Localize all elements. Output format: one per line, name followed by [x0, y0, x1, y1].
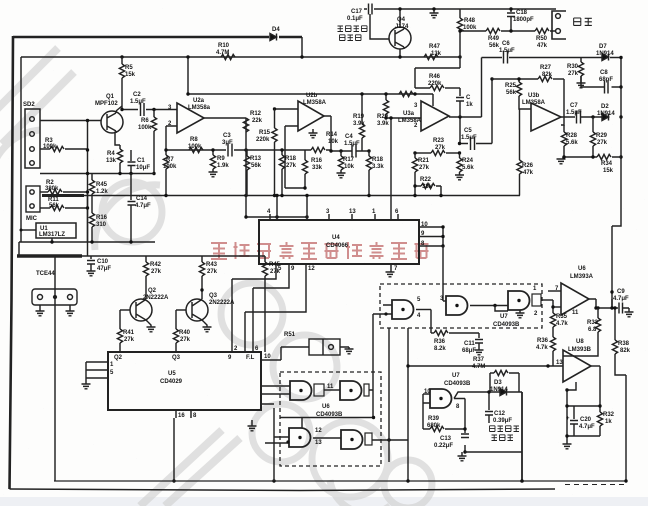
resistor R18a 27k [281, 150, 283, 155]
wire U6-C inputs [265, 408, 289, 443]
wire x522 down [521, 392, 523, 481]
svg-text:CD4093B: CD4093B [444, 381, 471, 387]
junction dots y173 [86, 172, 133, 175]
junction dot U6-C in [286, 440, 289, 443]
svg-text:13k: 13k [106, 158, 117, 164]
svg-text:R20: R20 [377, 114, 389, 120]
svg-text:100k: 100k [463, 25, 477, 31]
svg-text:C5: C5 [464, 128, 472, 134]
resistor R38 [614, 308, 616, 340]
wire top rail y37 [13, 36, 302, 38]
U4 ground pin [390, 264, 392, 272]
svg-text:47μF: 47μF [97, 266, 111, 272]
svg-text:F.L: F.L [246, 355, 255, 361]
svg-text:27k: 27k [286, 163, 297, 169]
svg-text:R42: R42 [150, 262, 162, 268]
wire R27 down to U3b [561, 79, 564, 125]
wire x55 long [54, 256, 56, 481]
resistor R45b 1.2k [91, 174, 93, 181]
IC U5 box [108, 352, 261, 410]
resistor R7 [165, 150, 167, 155]
svg-text:310: 310 [96, 222, 107, 228]
svg-text:1N914: 1N914 [596, 51, 614, 57]
svg-text:R9: R9 [217, 156, 225, 162]
U5 right pins to U6 [261, 386, 290, 404]
svg-text:1k: 1k [466, 102, 473, 108]
capacitor C14 [128, 174, 136, 243]
ground R9 [209, 172, 218, 177]
capacitor C13 [461, 434, 469, 438]
junction dot C12 [487, 390, 490, 393]
resistor R25 [518, 79, 520, 82]
junction dot x612 [610, 290, 613, 293]
wire x408 vertical [407, 328, 409, 481]
svg-text:C9: C9 [617, 289, 625, 295]
svg-text:56k: 56k [506, 90, 517, 96]
resistor R17 10k [340, 151, 342, 156]
junction dots U3a [413, 77, 493, 154]
junction dot R16b [303, 186, 306, 189]
wire y79 [492, 78, 538, 80]
svg-text:SD2: SD2 [23, 102, 35, 108]
svg-text:10k: 10k [344, 164, 355, 170]
svg-text:100k: 100k [138, 125, 152, 131]
svg-text:R6: R6 [141, 118, 149, 124]
junction dot R6 bottom [152, 172, 155, 175]
dashed box U6 [280, 372, 381, 466]
wire y118 to U3a [386, 117, 421, 119]
diode D7 [602, 54, 609, 61]
svg-text:C7: C7 [570, 103, 578, 109]
wire rail y173 [40, 173, 154, 175]
wire rail y94 [188, 93, 433, 95]
svg-text:CD4093B: CD4093B [493, 322, 520, 328]
op-amp U8b [563, 350, 591, 382]
op-amp U3a [421, 101, 449, 131]
resistor R40 [175, 310, 177, 329]
svg-text:R17: R17 [343, 157, 355, 163]
ground top rail [433, 9, 435, 13]
wire U8b in- long [408, 365, 563, 367]
capacitor C4 [352, 145, 356, 158]
resistor R30 [580, 57, 582, 62]
svg-text:0.1μF: 0.1μF [347, 16, 363, 22]
resistor R16 310 [91, 194, 93, 213]
ground mid area [251, 420, 253, 426]
junction dot R38 top [613, 306, 616, 309]
svg-text:27k: 27k [435, 145, 446, 151]
wire U8b fb stub [567, 382, 576, 390]
wire U6a in- [553, 306, 561, 308]
junction dots bottom rail [272, 479, 409, 482]
wire U7-B in [443, 300, 446, 302]
svg-text:680k: 680k [427, 423, 441, 429]
wire U1 bottom pin [51, 238, 53, 242]
svg-text:R47: R47 [429, 44, 441, 50]
watermark swirl arc left-mid [0, 130, 40, 180]
wire x277 riser [276, 196, 278, 221]
ground y157 [562, 157, 564, 159]
ground Q3 emitter [204, 322, 207, 327]
junction dot U5 bottom [172, 479, 175, 482]
resistor R13 56k [246, 150, 248, 156]
wire U7-D out [454, 399, 465, 453]
resistor R4 [119, 145, 121, 149]
svg-text:4.7μF: 4.7μF [579, 424, 595, 430]
watermark company text hangzhou jiangrui keji youxian gongsi [211, 242, 429, 259]
ground R30 [577, 83, 586, 88]
R51 pin circle [329, 345, 334, 350]
diode D4 [270, 34, 277, 41]
wire Q1 gate [40, 120, 101, 122]
resistor R16b 33k [304, 150, 306, 160]
svg-text:R14: R14 [326, 132, 338, 138]
svg-text:CD4066: CD4066 [326, 243, 349, 249]
svg-text:3.3k: 3.3k [372, 164, 384, 170]
svg-text:+: + [566, 416, 570, 422]
wire x431 down [430, 310, 432, 334]
svg-text:U7: U7 [500, 314, 508, 320]
svg-text:U4: U4 [332, 235, 340, 241]
svg-text:27k: 27k [124, 337, 135, 343]
svg-text:R15: R15 [259, 130, 271, 136]
svg-text:R16: R16 [311, 158, 323, 164]
resistor R28 [563, 125, 565, 132]
svg-text:56k: 56k [251, 163, 262, 169]
svg-text:82k: 82k [620, 348, 631, 354]
svg-text:R43: R43 [206, 262, 218, 268]
junction dot U7-B out [493, 304, 496, 307]
svg-text:2N2222A: 2N2222A [143, 295, 169, 301]
label noise-cap chinese bottom [490, 426, 520, 441]
wire U6-A out [324, 389, 340, 391]
svg-text:12: 12 [315, 428, 322, 434]
svg-text:4.7k: 4.7k [536, 345, 548, 351]
diode D3 [500, 389, 507, 396]
U4 bottom pin drop 3 [245, 264, 306, 352]
label sample-cap chinese top [338, 26, 368, 41]
wire R51 left [281, 347, 309, 360]
wire x389 vertical [388, 328, 390, 462]
svg-text:Q2: Q2 [148, 288, 157, 294]
wire x391 down [390, 118, 392, 220]
junction dot R25 [517, 77, 520, 80]
wire rail y481 [54, 480, 626, 482]
wire U2a pin2 [166, 126, 177, 150]
svg-text:47k: 47k [537, 43, 548, 49]
wire U7-A out [416, 309, 431, 311]
svg-text:LM317LZ: LM317LZ [39, 232, 65, 238]
svg-text:R4: R4 [107, 151, 115, 157]
ground R51 [345, 349, 354, 354]
wire rail y150 [165, 149, 273, 151]
resistor R51 box [309, 339, 340, 355]
junction dots x87 [86, 108, 124, 210]
svg-text:1k: 1k [605, 419, 612, 425]
capacitor C18 [507, 9, 515, 31]
junction dots y217 [244, 215, 308, 218]
resistor R48 [459, 9, 461, 18]
svg-text:100k: 100k [188, 144, 202, 150]
capacitor C2 [141, 103, 145, 116]
connector phone box [32, 289, 77, 305]
ground C11 [475, 350, 484, 355]
svg-text:11: 11 [327, 384, 334, 390]
svg-text:3μF: 3μF [222, 140, 233, 146]
resistor R22 [415, 185, 421, 187]
svg-text:U5: U5 [168, 371, 176, 377]
resistor R2 [40, 191, 48, 193]
ground C13 [461, 452, 463, 456]
svg-text:1.5μF: 1.5μF [461, 135, 477, 141]
svg-text:U2b: U2b [306, 93, 318, 99]
junction dots y242 [20, 229, 133, 244]
svg-text:15k: 15k [125, 72, 136, 78]
wire y452 [465, 451, 522, 453]
svg-text:1.5μF: 1.5μF [344, 141, 360, 147]
svg-text:27k: 27k [207, 269, 218, 275]
nand gate U7-D oscillator [430, 389, 452, 408]
ground R24 [455, 175, 464, 180]
resistor R41 [119, 310, 121, 329]
svg-text:27k: 27k [597, 140, 608, 146]
svg-text:R21: R21 [418, 158, 430, 164]
svg-text:U7: U7 [452, 373, 460, 379]
wire U8b out [591, 365, 600, 367]
ground C10 [87, 271, 96, 276]
svg-text:R49: R49 [488, 36, 500, 42]
svg-text:R24: R24 [462, 158, 474, 164]
svg-text:R39: R39 [428, 416, 440, 422]
wire U6a out [589, 299, 618, 308]
svg-text:R5: R5 [125, 65, 133, 71]
junction dot Q3 collector [200, 288, 203, 291]
wire U6-C top stub [301, 418, 303, 429]
svg-text:3.9k: 3.9k [353, 121, 365, 127]
svg-text:LM358a: LM358a [188, 105, 211, 111]
junction dots y151 [273, 148, 371, 197]
svg-text:U6: U6 [578, 266, 586, 272]
capacitor C6 [504, 51, 508, 64]
resistor R19 [361, 94, 363, 124]
svg-text:R18: R18 [285, 156, 297, 162]
watermark swirl circle center2 [273, 335, 337, 399]
junction dots right [591, 56, 622, 159]
U4 top pin ticks [270, 214, 398, 220]
svg-text:C18: C18 [516, 10, 528, 16]
svg-text:R18: R18 [372, 157, 384, 163]
svg-text:R50: R50 [536, 36, 548, 42]
resistor R26 [519, 109, 521, 160]
watermark swirl circle mid-left [102, 182, 162, 242]
wire U7-D inputs loop [423, 394, 430, 429]
junction dots C13 [463, 427, 466, 453]
ground C9 [625, 312, 634, 317]
wire C17 down to Q4 gate [370, 14, 389, 39]
svg-text:6.8: 6.8 [588, 327, 597, 333]
svg-text:2N2222A: 2N2222A [209, 300, 235, 306]
op-amp U3b [531, 103, 561, 131]
svg-text:J174: J174 [395, 24, 409, 30]
wire Q3 base [176, 309, 186, 311]
svg-text:R41: R41 [123, 330, 135, 336]
wire main rail y57 [21, 56, 460, 58]
resistor R36b [550, 337, 555, 351]
watermark swirl stroke bottom-left [140, 430, 240, 506]
svg-text:0.39μF: 0.39μF [493, 418, 512, 424]
junction dots y195 [164, 148, 247, 197]
resistor R8 [189, 147, 203, 152]
wire y109 with C2 [122, 109, 177, 111]
resistor R5 [121, 57, 123, 64]
U4 bottom pin drop 2 [253, 264, 289, 352]
svg-text:C10: C10 [97, 259, 109, 265]
svg-text:Q2: Q2 [114, 355, 123, 361]
wire U2b pin3 [275, 108, 299, 110]
wire left rail x21 [20, 57, 22, 242]
background bottom band [0, 497, 648, 506]
wire y151 c4 rail [273, 150, 369, 151]
junction x154 [152, 108, 155, 111]
junction dots risers [275, 194, 308, 197]
nand gate U7-A [392, 300, 414, 319]
svg-text:27k: 27k [180, 337, 191, 343]
junction dot U7-A in [384, 312, 387, 315]
svg-text:R38: R38 [618, 341, 630, 347]
junction dot x522 [520, 479, 524, 483]
svg-text:0.22μF: 0.22μF [434, 443, 453, 449]
svg-text:R25: R25 [505, 83, 517, 89]
resistor R3 [40, 148, 50, 150]
svg-text:10: 10 [421, 222, 428, 228]
svg-text:C13: C13 [440, 436, 452, 442]
svg-text:R34: R34 [601, 161, 613, 167]
wire x612 join [611, 299, 613, 308]
junction dots y157 [562, 155, 594, 158]
svg-text:LM393B: LM393B [568, 347, 592, 353]
svg-text:33k: 33k [312, 165, 323, 171]
border bottom [10, 489, 556, 491]
svg-text:1.5μF: 1.5μF [499, 48, 515, 54]
svg-text:1.9k: 1.9k [217, 163, 229, 169]
svg-text:27k: 27k [568, 71, 579, 77]
svg-text:68pF: 68pF [599, 77, 613, 83]
wire y87 C8 [581, 76, 621, 87]
wire U7-C in2 [495, 306, 508, 312]
svg-text:U3a: U3a [403, 111, 415, 117]
svg-text:C1: C1 [137, 158, 145, 164]
capacitor C3 [228, 144, 232, 157]
wire y217 rail [246, 216, 307, 218]
junction dot U6-D out [387, 438, 390, 441]
capacitor C12 [485, 392, 493, 423]
diode D2 [602, 114, 609, 121]
resistor R15 220k [274, 109, 276, 128]
svg-text:LM358A: LM358A [522, 100, 546, 106]
resistor R42 [145, 256, 147, 262]
svg-text:11: 11 [572, 310, 579, 316]
wire x274 lower [273, 437, 275, 481]
dashed box U7 [380, 284, 542, 328]
wire rail y157 [563, 156, 621, 158]
svg-text:D2: D2 [601, 104, 609, 110]
wire x567 down [566, 390, 568, 444]
ground U5 left [82, 384, 91, 389]
svg-text:MPF102: MPF102 [95, 101, 118, 107]
svg-text:R37: R37 [473, 357, 485, 363]
svg-text:R40: R40 [179, 330, 191, 336]
transistor Q1 [101, 111, 123, 133]
transistor Q2 [130, 299, 152, 322]
junction dots C18 [398, 7, 512, 58]
svg-text:4.7μF: 4.7μF [613, 296, 629, 302]
svg-text:13: 13 [315, 440, 322, 446]
svg-text:R36: R36 [434, 339, 446, 345]
junction dots U4 right [441, 225, 444, 247]
junction dots U6a out [594, 306, 613, 309]
wire rail y195 long [42, 195, 520, 197]
svg-text:1.2k: 1.2k [96, 189, 108, 195]
resistor R21 [414, 153, 416, 158]
svg-text:12: 12 [308, 266, 315, 272]
svg-text:220k: 220k [256, 137, 270, 143]
svg-text:R51: R51 [284, 332, 296, 338]
junction dots top [120, 55, 461, 95]
junction dot U6 mid [372, 416, 375, 419]
junction dots y195 right [367, 184, 442, 197]
svg-text:100k: 100k [43, 144, 57, 150]
svg-text:C: C [466, 95, 471, 101]
capacitor C5 [471, 137, 475, 150]
resistor R10 zigzag [221, 54, 235, 59]
capacitor C17 [369, 4, 373, 15]
capacitor C7 [577, 111, 581, 124]
resistor R39 [423, 428, 430, 430]
resistor R33 [597, 308, 599, 318]
wire U6-C out [313, 437, 341, 439]
svg-text:13: 13 [556, 360, 563, 366]
watermark swirl circle center [221, 283, 283, 345]
svg-text:R32: R32 [603, 412, 615, 418]
connector SD2 pins [30, 117, 35, 166]
svg-text:1N914: 1N914 [597, 111, 615, 117]
svg-text:U6: U6 [322, 404, 330, 410]
wire U3b out C7 [561, 116, 602, 118]
svg-text:R10: R10 [218, 43, 230, 49]
resistor y94 small [399, 91, 413, 96]
svg-text:16: 16 [178, 413, 185, 419]
IC U4 box [259, 220, 419, 264]
wire C20 top rail [567, 405, 600, 407]
connector SD2 box [25, 109, 40, 168]
IC U1 LM317LZ box [36, 223, 76, 238]
svg-text:U3b: U3b [528, 93, 540, 99]
capacitor C small 1k [456, 88, 464, 117]
svg-text:1.5μF: 1.5μF [566, 110, 582, 116]
svg-text:D7: D7 [599, 44, 607, 50]
R51 divider [322, 339, 324, 355]
border left [10, 36, 14, 489]
wire C20 bottom rail [567, 435, 600, 437]
capacitor C9 [619, 303, 629, 314]
wire riser x481 [481, 58, 483, 118]
svg-text:R30: R30 [567, 64, 579, 70]
wire node x246 vertical [245, 118, 247, 217]
ground U2b [312, 129, 314, 133]
wire U6-B out up [369, 314, 373, 390]
resistor R23 [415, 152, 431, 154]
svg-text:5.6k: 5.6k [462, 165, 474, 171]
